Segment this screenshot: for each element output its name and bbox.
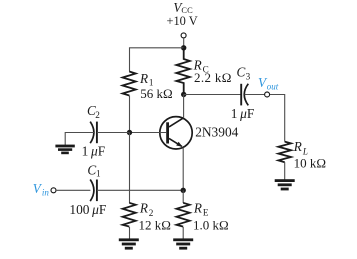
wire RL to ground bbox=[284, 162, 286, 180]
terminal Vin bbox=[51, 188, 56, 193]
ground (R2) bbox=[119, 238, 139, 249]
wire base node to R2 bbox=[129, 133, 131, 204]
label C3 bbox=[237, 64, 251, 81]
resistor RL bbox=[278, 142, 291, 163]
label RE bbox=[193, 201, 209, 218]
svg-text:12 kΩ: 12 kΩ bbox=[139, 217, 171, 232]
transistor Q1 (2N3904) bbox=[160, 117, 192, 149]
svg-text:56 kΩ: 56 kΩ bbox=[140, 86, 172, 101]
wire RE to ground bbox=[182, 227, 184, 239]
resistor RC bbox=[176, 48, 189, 95]
label Vout bbox=[258, 75, 279, 92]
wire collector node to C3 bbox=[184, 94, 242, 96]
label RC bbox=[193, 58, 209, 75]
svg-text:1 μF: 1 μF bbox=[82, 144, 106, 159]
wire emitter node to RE bbox=[182, 190, 184, 203]
wire C2 to ground bbox=[65, 133, 94, 146]
label R1 bbox=[139, 71, 154, 88]
svg-text:1: 1 bbox=[96, 169, 101, 179]
svg-text:R: R bbox=[139, 201, 148, 216]
svg-text:3: 3 bbox=[246, 72, 251, 82]
label VCC bbox=[173, 0, 193, 15]
svg-text:R: R bbox=[293, 139, 302, 154]
svg-text:2.2 kΩ: 2.2 kΩ bbox=[194, 70, 232, 85]
wire R2 to ground bbox=[129, 227, 131, 239]
label C2 bbox=[87, 103, 100, 120]
wire input line C1 to emitter node bbox=[97, 189, 183, 191]
svg-text:+10 V: +10 V bbox=[167, 14, 198, 28]
resistor R2 bbox=[123, 203, 136, 227]
ground (RL) bbox=[275, 179, 295, 190]
wire R1 to base node bbox=[129, 96, 131, 133]
svg-text:R: R bbox=[193, 201, 202, 216]
wire C3 to Vout terminal bbox=[245, 94, 265, 96]
svg-text:in: in bbox=[42, 187, 50, 197]
wire supply rail to R1 branch bbox=[130, 48, 184, 72]
ground (C2) bbox=[55, 145, 74, 155]
svg-text:E: E bbox=[203, 208, 209, 218]
capacitor C1 bbox=[90, 180, 97, 202]
svg-text:2: 2 bbox=[95, 110, 100, 120]
label Vin bbox=[33, 181, 50, 198]
terminal VCC bbox=[181, 33, 186, 38]
resistor R1 bbox=[123, 72, 136, 96]
wire collector lead bbox=[183, 95, 185, 119]
wire Vout terminal to RL bbox=[270, 95, 285, 142]
svg-text:10 kΩ: 10 kΩ bbox=[294, 156, 326, 171]
svg-text:2N3904: 2N3904 bbox=[195, 124, 238, 139]
label RL bbox=[293, 139, 308, 156]
junction base node bbox=[127, 130, 132, 135]
label R2 bbox=[139, 201, 154, 219]
junction emitter node bbox=[181, 188, 186, 193]
svg-text:R: R bbox=[139, 71, 148, 86]
label C1 bbox=[87, 162, 101, 178]
svg-text:1.0 kΩ: 1.0 kΩ bbox=[193, 217, 229, 232]
ground (RE) bbox=[173, 238, 193, 249]
wire base bbox=[130, 132, 167, 134]
resistor RE bbox=[177, 203, 190, 227]
wire Vin to C1 bbox=[57, 189, 91, 191]
wire C2 to base node bbox=[97, 132, 130, 134]
terminal Vout bbox=[265, 92, 270, 97]
capacitor C2 bbox=[90, 122, 97, 144]
svg-text:100 μF: 100 μF bbox=[69, 202, 106, 217]
wire VCC terminal to supply node bbox=[183, 38, 185, 48]
junction collector node bbox=[181, 92, 186, 97]
svg-text:1 μF: 1 μF bbox=[231, 106, 255, 121]
wire emitter lead bbox=[182, 148, 184, 191]
svg-text:C: C bbox=[237, 64, 246, 79]
svg-text:out: out bbox=[267, 81, 279, 91]
junction supply node bbox=[181, 45, 186, 50]
capacitor C3 bbox=[241, 84, 248, 106]
